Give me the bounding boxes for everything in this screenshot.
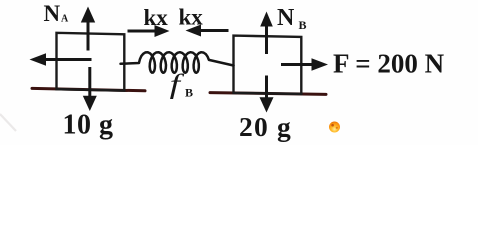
block B (20 g block) — [234, 36, 302, 94]
svg-text:B: B — [299, 18, 307, 32]
svg-text:B: B — [185, 86, 193, 100]
svg-text:20 g: 20 g — [239, 111, 292, 142]
label N_B — [277, 5, 307, 32]
spring between blocks — [121, 52, 234, 73]
ground line left (under block A) — [32, 88, 145, 90]
faint pencil streak bottom-left — [0, 114, 16, 131]
arrow left (block A, friction/kx reaction) — [30, 53, 92, 66]
label f_B (spring force) — [170, 70, 193, 100]
arrow kx on block B (points left) — [186, 25, 229, 37]
arrow F (right, applied force) — [281, 58, 328, 70]
svg-text:N: N — [277, 5, 295, 31]
svg-text:kx: kx — [179, 5, 204, 30]
svg-text:10 g: 10 g — [63, 110, 114, 141]
svg-text:A: A — [61, 14, 69, 25]
arrow weight 20g (down, block B) — [260, 76, 274, 113]
label N_A — [44, 1, 70, 26]
block A (10 g block) — [57, 33, 125, 91]
arrow N_A (up, block A) — [81, 7, 95, 51]
svg-text:F = 200 N: F = 200 N — [333, 49, 445, 79]
ground line right (under block B) — [210, 93, 326, 95]
svg-text:kx: kx — [144, 5, 169, 30]
arrow kx on block A (points right) — [128, 25, 170, 37]
orange marker dot — [329, 122, 340, 133]
svg-text:N: N — [44, 1, 61, 26]
arrow N_B (up, block B) — [260, 12, 273, 55]
arrow weight 10g (down, block A) — [83, 67, 97, 111]
